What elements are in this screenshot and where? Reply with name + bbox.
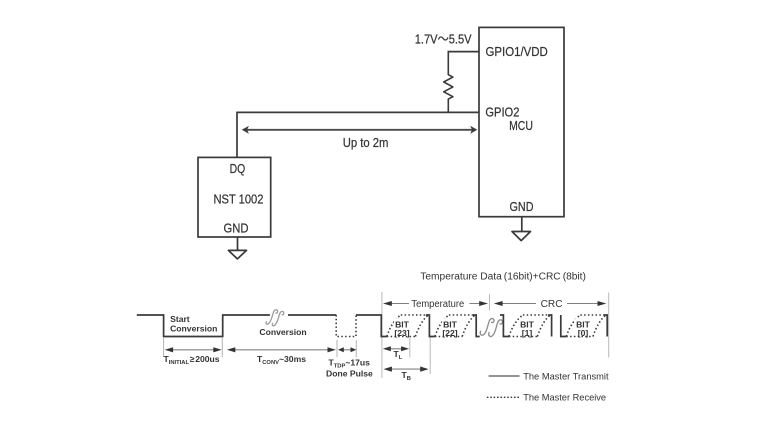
- bit edge before BIT[0]: [561, 315, 567, 337]
- bit edge between BIT[23] and BIT[22]: [426, 315, 435, 337]
- svg-text:GND: GND: [510, 199, 534, 214]
- svg-text:TINITIAL ≥ 200us: TINITIAL ≥ 200us: [164, 354, 220, 366]
- svg-text:Conversion: Conversion: [170, 324, 217, 334]
- bit edge after BIT[0]: [604, 315, 608, 337]
- dimension arrow T_L: [383, 346, 409, 351]
- extension line (fall of start pulse): [163, 338, 165, 357]
- svg-text:The Master Transmit: The Master Transmit: [523, 371, 609, 382]
- dimension arrow T_CONV: [227, 347, 336, 352]
- bit edge after BIT[1]: [548, 315, 552, 337]
- extension line (done pulse rise): [355, 340, 357, 357]
- boundary line Temperature/CRC (x=489.5): [489, 294, 491, 311]
- svg-text:1.7V～5.5V: 1.7V～5.5V: [415, 32, 472, 47]
- legend dotted line: [487, 396, 520, 398]
- dimension arrow T_TDP (inward pair): [338, 347, 356, 352]
- svg-text:[23]: [23]: [394, 328, 409, 338]
- extension line (done pulse fall): [336, 340, 338, 357]
- svg-text:[1]: [1]: [522, 328, 533, 338]
- bit edge before BIT[1]: [500, 315, 509, 337]
- waveform solid segment (after done pulse): [356, 315, 387, 337]
- svg-text:Up to 2m: Up to 2m: [343, 135, 389, 150]
- wire DQ bus horizontal: [237, 111, 479, 113]
- dimension arrow Up to 2m: [242, 126, 477, 134]
- svg-text:[0]: [0]: [578, 328, 589, 338]
- bit cell BIT[0]: [566, 315, 606, 338]
- svg-text:Temperature Data (16bit)+CRC (: Temperature Data (16bit)+CRC (8bit): [420, 272, 586, 283]
- ground symbol (MCU): [512, 217, 531, 241]
- extension line (rise of start pulse): [221, 338, 223, 357]
- bit cell BIT[1]: [509, 315, 550, 338]
- svg-text:CRC: CRC: [541, 299, 563, 310]
- svg-text:Done Pulse: Done Pulse: [326, 369, 373, 379]
- MCU U1 box: [479, 27, 564, 216]
- svg-text:TB: TB: [402, 370, 411, 382]
- svg-text:Conversion: Conversion: [259, 327, 306, 337]
- break squiggle in CRC waveform: [480, 319, 502, 337]
- waveform solid segment (start conversion pulse): [137, 315, 336, 337]
- wire VDD top: [448, 51, 479, 53]
- boundary line T_L right (x=409.8): [409, 338, 411, 358]
- svg-text:NST 1002: NST 1002: [214, 191, 264, 206]
- svg-text:TCONV~30ms: TCONV~30ms: [257, 354, 306, 366]
- svg-text:The Master Receive: The Master Receive: [523, 392, 606, 403]
- wire DQ vertical: [236, 112, 238, 158]
- dimension arrow T_B: [384, 367, 429, 372]
- svg-text:GPIO1/VDD: GPIO1/VDD: [486, 44, 548, 59]
- boundary line left (x=382): [381, 292, 383, 378]
- svg-text:Start: Start: [170, 314, 190, 324]
- bit edge after BIT[22]: [473, 315, 480, 337]
- svg-text:DQ: DQ: [230, 161, 246, 176]
- break squiggle on conversion line: [266, 310, 284, 326]
- svg-text:MCU: MCU: [509, 118, 533, 133]
- boundary line T_B right (x=430.2): [429, 337, 431, 374]
- legend solid line: [489, 375, 520, 377]
- boundary line right (x=608.7): [608, 293, 610, 358]
- dimension arrow T_INITIAL: [165, 347, 222, 352]
- bit cell BIT[22]: [435, 315, 475, 338]
- done pulse (dotted): [336, 315, 356, 337]
- svg-text:[22]: [22]: [442, 328, 457, 338]
- svg-text:GND: GND: [224, 221, 249, 236]
- sensor U2 NST 1002 box: [198, 157, 271, 237]
- svg-text:Temperature: Temperature: [411, 299, 464, 310]
- dimension arrow Temperature: [383, 301, 488, 306]
- dimension arrow CRC: [494, 301, 607, 306]
- ground symbol (NST): [228, 237, 246, 259]
- bit cell BIT[23]: [387, 315, 428, 338]
- resistor R1 (pull-up): [444, 51, 453, 113]
